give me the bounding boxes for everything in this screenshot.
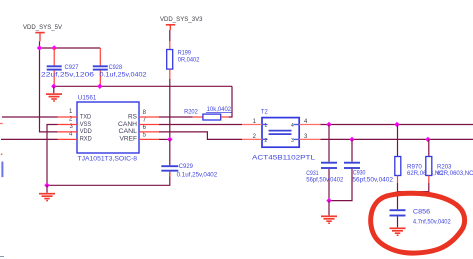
svg-text:VDD_SYS_3V3: VDD_SYS_3V3 (160, 16, 203, 23)
power symbol VDD_SYS_5V (35, 33, 44, 42)
svg-text:6: 6 (143, 125, 147, 131)
svg-text:VDD_SYS_5V: VDD_SYS_5V (23, 24, 63, 31)
svg-text:56pf,50v,0402: 56pf,50v,0402 (352, 177, 393, 184)
pin names U1561 (80, 113, 138, 142)
wire R199 to VREF node (169, 79, 171, 139)
node junction C927 top (52, 45, 57, 50)
node junction C931 bottom (326, 198, 331, 203)
svg-text:U1561: U1561 (78, 94, 97, 101)
stray red dash at left edge (0, 123, 3, 125)
svg-text:3: 3 (291, 138, 294, 144)
wire TXD to edge (2, 116, 58, 118)
stray blue bar left edge (1, 162, 3, 178)
capacitor C927 (41, 48, 95, 86)
node junction C928 bottom (97, 84, 102, 89)
pin numbers U1561 (69, 109, 147, 138)
ground symbol C931 (321, 216, 337, 223)
svg-text:7: 7 (143, 118, 147, 124)
ground symbol VSS (39, 194, 55, 201)
wire R202 right up to ground rail (229, 86, 232, 117)
node junction C927 bottom (51, 84, 56, 89)
capacitor C856 (390, 208, 452, 227)
wire power 5V drop (39, 41, 41, 48)
pin stubs U1561 left (58, 117, 77, 139)
svg-text:4: 4 (69, 132, 73, 138)
wire CANL to T2 with jog (159, 132, 242, 140)
svg-text:VSS: VSS (80, 121, 92, 128)
svg-text:56pf,50v,0402: 56pf,50v,0402 (306, 177, 344, 184)
svg-text:4.7nf,50v,0402: 4.7nf,50v,0402 (413, 219, 451, 226)
svg-text:RXD: RXD (80, 136, 92, 143)
pin stubs T2 right (299, 125, 320, 140)
svg-text:C928: C928 (109, 64, 123, 71)
resistor R970 (395, 125, 444, 184)
svg-text:T2: T2 (261, 109, 268, 116)
wire ground stub C931 (328, 201, 330, 216)
node junction C930 row3 (349, 137, 354, 142)
svg-text:TJA1051T3,SOIC-8: TJA1051T3,SOIC-8 (78, 156, 138, 163)
wire 5V top rail (40, 47, 101, 49)
wire RXD to edge (1, 138, 58, 140)
svg-text:C930: C930 (353, 170, 366, 177)
wire CANH to T2 (159, 124, 242, 126)
wire R970 R203 join (398, 183, 429, 192)
transformer T2 common-mode choke (252, 109, 316, 162)
wire VSS ground stub (46, 185, 48, 193)
pin numbers T2 (253, 119, 308, 140)
svg-text:4: 4 (291, 123, 294, 129)
wire VREF (159, 138, 170, 140)
wire bus row 3 (321, 138, 473, 140)
svg-text:2: 2 (264, 138, 267, 144)
svg-text:R202: R202 (184, 108, 198, 115)
pin stubs U1561 right (139, 117, 159, 139)
node junction VSS ground (44, 183, 49, 188)
svg-text:0.1uf,25v,0402: 0.1uf,25v,0402 (177, 172, 218, 179)
svg-text:C929: C929 (179, 163, 194, 170)
svg-text:TXD: TXD (80, 113, 92, 120)
svg-text:CANL: CANL (119, 128, 138, 135)
node junction R203 row3 (425, 137, 430, 142)
stray gray dash bottom left (0, 256, 4, 258)
svg-text:0.1uf,25v,0402: 0.1uf,25v,0402 (100, 71, 148, 78)
ground symbol upper (46, 94, 62, 101)
node junction C931 row4 (326, 122, 331, 127)
capacitor C928 (93, 48, 147, 86)
ground symbol C856 (390, 228, 406, 235)
node junction R970 row4 (394, 122, 399, 127)
wire ground stub upper (53, 86, 55, 93)
IC U1561 box (CAN transceiver TJA1051) (77, 102, 139, 153)
wire ground rail lower-left (47, 172, 170, 185)
svg-text:C856: C856 (413, 208, 431, 215)
wire RS to R202 (159, 116, 193, 118)
svg-text:62R,0603,NC: 62R,0603,NC (437, 170, 473, 177)
capacitor C929 (161, 139, 217, 178)
svg-text:ACT45B1102PTL: ACT45B1102PTL (252, 154, 316, 161)
svg-text:CANH: CANH (118, 121, 137, 128)
svg-text:8: 8 (143, 110, 147, 116)
wire bus row 4 (321, 124, 473, 126)
svg-text:5: 5 (143, 132, 147, 138)
node junction VREF (167, 137, 172, 142)
svg-text:VDD: VDD (80, 128, 92, 135)
wire 5V rail down to VDD (40, 48, 58, 132)
resistor R199 (167, 41, 200, 79)
svg-text:0R,0402: 0R,0402 (178, 56, 200, 63)
resistor R202 (184, 106, 232, 120)
node junction 5V drop (37, 45, 42, 50)
wire 3V3 drop (169, 30, 171, 41)
pin stubs T2 left (242, 125, 262, 140)
wire VSS (47, 125, 58, 186)
resistor R203 (426, 139, 473, 183)
annotation red circle around C856 (371, 193, 465, 253)
power symbol VDD_SYS_3V3 (166, 25, 175, 30)
svg-text:22uf,25v,1206: 22uf,25v,1206 (41, 71, 95, 78)
svg-text:RS: RS (128, 113, 137, 120)
svg-text:C927: C927 (65, 64, 80, 71)
capacitor C930 (329, 139, 394, 200)
wire ground rail upper (54, 85, 232, 87)
wire down to C856 (397, 192, 399, 210)
stray red dot left edge (1, 154, 3, 156)
svg-text:1: 1 (69, 109, 73, 115)
svg-text:1: 1 (264, 123, 267, 129)
capacitor C931 (306, 125, 344, 201)
svg-text:VREF: VREF (120, 136, 138, 143)
